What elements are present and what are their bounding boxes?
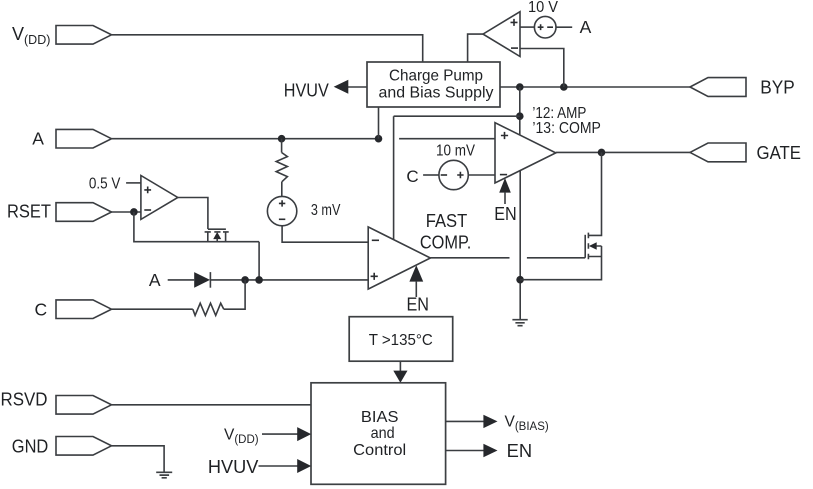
- arrow thermal box to BIAS box: [393, 361, 407, 383]
- svg-text:FAST: FAST: [426, 211, 468, 231]
- node diode junction dot (C branch): [241, 276, 249, 284]
- voltage source V2 3 mV: [267, 196, 341, 225]
- op-amp U1 (10 V comparator): [483, 12, 520, 57]
- svg-text:A: A: [580, 17, 592, 37]
- node diode junction dot (Q1 source): [255, 276, 263, 284]
- wire RSET rail: [134, 212, 259, 280]
- pin C: [35, 300, 112, 320]
- HVUV arrow from charge pump: [284, 80, 367, 101]
- diode D1: [194, 272, 210, 288]
- EN arrow (FAST COMP): [406, 265, 429, 314]
- wire RSVD to BIAS box: [112, 404, 312, 406]
- arrow EN output: [446, 441, 532, 461]
- voltage source V3 10 mV: [436, 143, 476, 190]
- pin RSVD: [1, 390, 112, 415]
- wire C branch: [224, 280, 245, 309]
- svg-text:EN: EN: [507, 441, 532, 461]
- wire FAST COMP output to Q2 gate: [430, 257, 585, 259]
- svg-text:10 mV: 10 mV: [436, 143, 476, 160]
- svg-text:T >135°C: T >135°C: [369, 332, 433, 349]
- svg-text:Charge Pump: Charge Pump: [389, 68, 483, 85]
- svg-text:V(BIAS): V(BIAS): [505, 414, 549, 434]
- arrow V(BIAS) output: [446, 414, 549, 434]
- charge pump box: [367, 62, 500, 107]
- node A junction dot (charge pump tap): [375, 135, 383, 143]
- node BYP junction dot (supply branch): [516, 83, 524, 91]
- svg-text:0.5 V: 0.5 V: [89, 175, 121, 192]
- pin GND: [12, 436, 112, 456]
- wire supply branch to FAST COMP: [394, 116, 520, 240]
- node ground junction dot: [516, 276, 524, 284]
- svg-text:C: C: [35, 300, 48, 320]
- op-amp U2 (0.5 V RSET amp): [141, 176, 178, 220]
- op-amp U4 gate amplifier: [495, 123, 556, 183]
- op-amp U3 FAST COMP: [368, 227, 430, 289]
- wire 0.5 V reference stub: [126, 182, 141, 184]
- ground (GND pin): [156, 472, 172, 478]
- svg-text:HVUV: HVUV: [284, 80, 329, 100]
- wire C label to V3: [423, 174, 439, 176]
- wire U1 output to charge pump: [468, 34, 483, 62]
- svg-text:and Bias Supply: and Bias Supply: [379, 84, 494, 101]
- wire U2 output to Q1 gate: [178, 198, 208, 230]
- arrow V(DD) into BIAS box: [262, 427, 311, 441]
- svg-text:EN: EN: [494, 204, 517, 224]
- pin BYP: [690, 77, 795, 97]
- pin RSET: [7, 202, 112, 222]
- wire charge pump bottom tap: [378, 107, 380, 139]
- transistor Q1 (RSET current mirror FET): [205, 229, 229, 242]
- pin GATE: [690, 143, 801, 163]
- svg-text:RSET: RSET: [7, 202, 51, 222]
- svg-text:’13: COMP: ’13: COMP: [532, 120, 601, 137]
- wire R2 to C pin: [112, 308, 193, 310]
- svg-text:C: C: [406, 167, 418, 186]
- wire V1 to node A label: [556, 26, 572, 28]
- svg-text:BIAS: BIAS: [361, 409, 399, 426]
- BIAS and Control box: [311, 383, 446, 485]
- node A junction dot (resistor branch): [278, 135, 286, 143]
- wire diode anode: [168, 279, 195, 281]
- resistor R1 (node A sense): [276, 139, 287, 197]
- wire V3 to U4 - input: [468, 174, 495, 176]
- node RSET junction dot: [130, 208, 138, 216]
- svg-text:BYP: BYP: [760, 77, 795, 97]
- pin V(DD): [12, 24, 112, 47]
- wire V2 to FAST COMP - input: [282, 226, 368, 242]
- wire U4 output to GATE: [556, 151, 690, 153]
- svg-text:COMP.: COMP.: [420, 233, 472, 253]
- svg-text:RSVD: RSVD: [1, 390, 48, 410]
- svg-text:3 mV: 3 mV: [311, 202, 341, 219]
- wire supply from BYP down: [519, 87, 521, 135]
- svg-text:and: and: [371, 425, 395, 442]
- wire node A horizontal: [112, 138, 496, 140]
- thermal shutdown box T>135C: [349, 317, 453, 362]
- svg-text:GATE: GATE: [757, 143, 802, 163]
- svg-text:HVUV: HVUV: [208, 457, 259, 477]
- svg-text:A: A: [149, 270, 161, 290]
- svg-text:Control: Control: [353, 442, 406, 459]
- wire RSET to comparator: [112, 211, 141, 213]
- svg-text:10 V: 10 V: [528, 0, 558, 16]
- resistor R2 (C input): [193, 303, 224, 315]
- wire U1 - input from BYP: [520, 49, 564, 88]
- pin A: [32, 128, 111, 148]
- node BYP junction dot (comparator feedback): [560, 83, 568, 91]
- wire U1 + input: [520, 26, 534, 28]
- wire V(DD) to Charge Pump: [112, 35, 423, 62]
- svg-text:GND: GND: [12, 436, 49, 456]
- svg-text:A: A: [32, 128, 44, 148]
- voltage source V1 10 V: [528, 0, 558, 38]
- svg-text:V(DD): V(DD): [224, 427, 259, 447]
- transistor Q2 (gate pulldown FET): [520, 152, 601, 279]
- wire GND pin to ground: [112, 446, 165, 472]
- node supply junction dot: [516, 112, 524, 120]
- node GATE junction dot: [598, 149, 606, 157]
- wire diode cathode to FAST COMP + input: [210, 279, 368, 281]
- wire BYP line: [500, 86, 690, 88]
- wire U4 bottom supply to ground: [519, 171, 521, 319]
- svg-text:V(DD): V(DD): [12, 24, 50, 47]
- EN arrow (U4): [494, 178, 517, 224]
- svg-text:EN: EN: [406, 294, 429, 314]
- arrow HVUV into BIAS box: [259, 459, 312, 473]
- ground (main): [512, 320, 527, 326]
